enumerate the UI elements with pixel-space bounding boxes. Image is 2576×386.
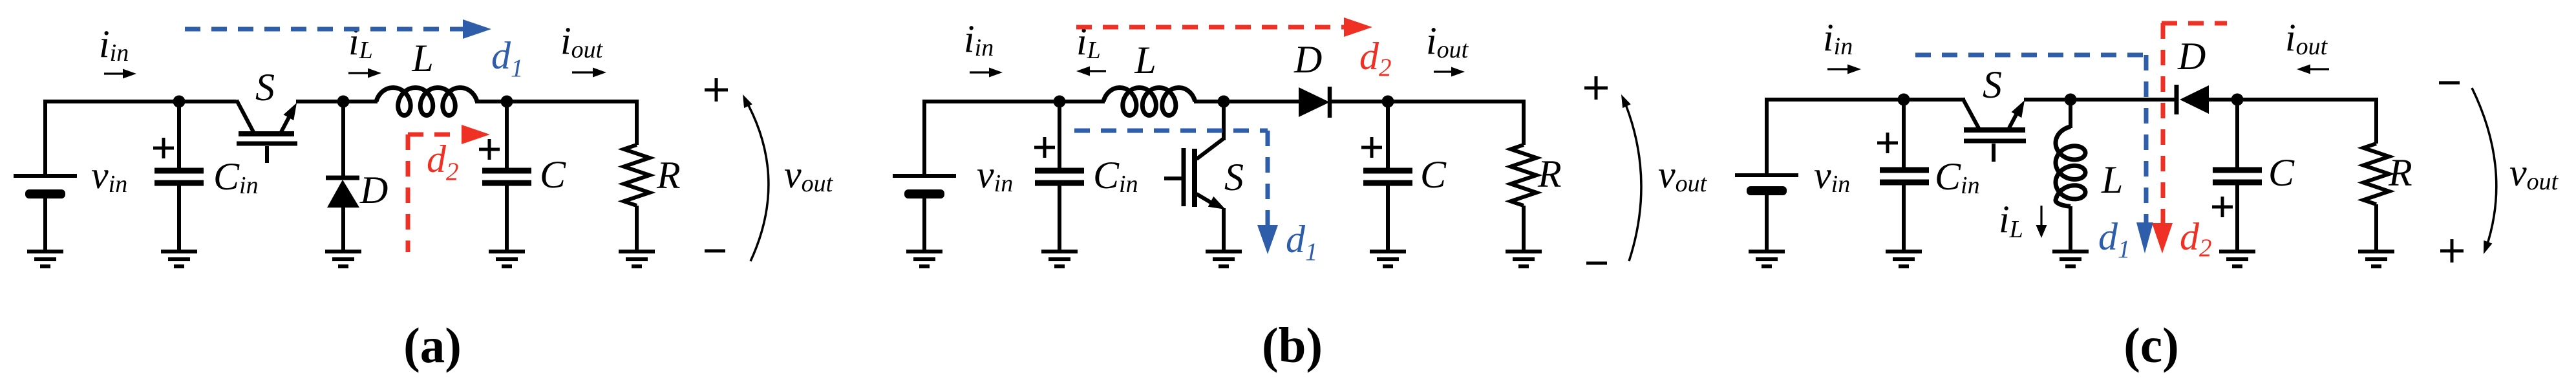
arrow i_L (b) points left: [1076, 67, 1106, 76]
node switch (b): [1218, 96, 1230, 108]
wire battery to ground (a): [43, 197, 47, 252]
node output capacitor (c): [2231, 94, 2244, 106]
wire inductor to diode (b): [1194, 100, 1301, 103]
inductor L (a): [376, 88, 477, 116]
diode D (b): [1299, 87, 1330, 118]
svg-text:iL: iL: [1999, 198, 2023, 243]
ground battery (a): [27, 252, 63, 266]
battery Vin (b): [893, 176, 956, 198]
svg-text:S: S: [1983, 63, 2002, 106]
svg-text:d2: d2: [1359, 35, 1392, 81]
wire resistor to ground (a): [635, 206, 639, 252]
svg-text:vout: vout: [1658, 153, 1708, 197]
ground battery (c): [1749, 252, 1785, 266]
svg-text:d1: d1: [2098, 215, 2131, 263]
minus sign vout (b): [1586, 262, 1607, 265]
wire node3 to cap C (b): [1386, 102, 1390, 171]
ground C (a): [489, 252, 525, 266]
ground resistor (c): [2358, 252, 2394, 266]
wire battery to ground (c): [1765, 194, 1769, 252]
resistor R (b): [1511, 145, 1537, 206]
svg-text:L: L: [2101, 158, 2123, 201]
svg-text:D: D: [2177, 35, 2206, 78]
wire node to Cin (b): [1058, 102, 1061, 171]
ground diode (a): [325, 252, 361, 266]
wire node3 to cap C (a): [505, 102, 509, 171]
dashed blue flux path d1 vertical (c): [2144, 55, 2149, 226]
capacitor C (a): [482, 171, 531, 183]
plus sign C (a): [479, 139, 500, 160]
plus sign C (b): [1361, 137, 1382, 158]
svg-text:D: D: [1293, 38, 1322, 81]
svg-text:D: D: [359, 169, 388, 211]
wire resistor to ground (b): [1522, 206, 1526, 252]
svg-text:vout: vout: [2509, 151, 2559, 195]
svg-text:Cin: Cin: [1935, 155, 1980, 199]
ground C (b): [1370, 252, 1406, 266]
svg-text:C: C: [540, 153, 566, 196]
svg-text:d2: d2: [2180, 215, 2212, 262]
svg-text:R: R: [2388, 151, 2412, 194]
svg-text:L: L: [1134, 39, 1156, 81]
red arrowhead d2 (c): [2152, 223, 2173, 253]
wire corner to resistor (b): [1522, 100, 1526, 145]
svg-text:R: R: [656, 154, 681, 197]
svg-text:iout: iout: [2285, 16, 2328, 60]
wire node2 to inductor (a): [343, 100, 378, 103]
minus sign vout (c): [2439, 81, 2460, 85]
wire corner to resistor (c): [2374, 98, 2378, 144]
svg-text:vin: vin: [977, 153, 1013, 197]
wire node to inductor (c): [2069, 100, 2072, 128]
arrow i_in (a): [104, 69, 136, 79]
svg-text:iout: iout: [1426, 19, 1469, 63]
svg-text:(b): (b): [1262, 317, 1323, 373]
svg-text:vin: vin: [91, 154, 127, 198]
ground resistor (a): [619, 252, 655, 266]
switch S IGBT (a): [237, 100, 297, 163]
svg-text:Cin: Cin: [213, 155, 259, 199]
vout arc arrow (a): [745, 98, 769, 261]
svg-text:L: L: [411, 37, 433, 80]
vout arc arrow (c): [2472, 88, 2496, 250]
wire Cin to ground (c): [1902, 182, 1906, 252]
ground C (c): [2219, 252, 2255, 266]
svg-text:vin: vin: [1814, 154, 1850, 198]
wire switch to node2 (a): [296, 100, 343, 103]
capacitor Cin (a): [154, 171, 204, 183]
wire node to Cin (c): [1902, 100, 1906, 170]
blue arrowhead d1 (c): [2136, 222, 2153, 253]
plus sign C (c) below plates: [2212, 197, 2233, 217]
svg-text:d1: d1: [491, 34, 524, 82]
wire node to Cin (a): [177, 102, 181, 171]
svg-text:iout: iout: [560, 19, 604, 63]
arrow i_L down (c): [2040, 206, 2042, 226]
resistor R (c): [2363, 144, 2389, 204]
arrow i_out (c) points left: [2297, 65, 2329, 74]
wire Cin to ground (b): [1058, 183, 1061, 252]
wire left drop to battery (c): [1765, 98, 1769, 174]
wire left drop to battery (a): [43, 100, 47, 174]
dashed red flux path d2 vertical (a): [406, 134, 410, 252]
inductor L (c) vertical: [2056, 127, 2085, 206]
circuit (a) buck converter: [14, 19, 834, 373]
node inductor (c): [2065, 94, 2077, 106]
plus sign vout (a): [705, 78, 728, 102]
node input capacitor (b): [1054, 96, 1066, 108]
svg-text:(c): (c): [2124, 317, 2178, 373]
switch S IGBT (c): [1963, 98, 2026, 162]
plus sign vout (c): [2440, 239, 2464, 263]
svg-text:iin: iin: [964, 17, 994, 61]
circuit (c) buck-boost converter: [1735, 16, 2559, 373]
dashed red flux path d2 horizontal (a): [408, 133, 460, 137]
wire C to ground (a): [505, 183, 509, 252]
plus sign vout (b): [1584, 76, 1608, 100]
wire corner to resistor (a): [635, 100, 639, 145]
plus sign Cin (a): [153, 138, 174, 158]
node output capacitor (a): [501, 96, 513, 108]
minus sign vout (a): [705, 250, 725, 253]
dashed red flux path d2 horizontal (c): [2162, 21, 2227, 26]
resistor R (a): [624, 145, 650, 206]
arrow i_out (a): [572, 68, 606, 78]
wire diode to resistor corner (b): [1331, 100, 1524, 103]
capacitor C (c): [2213, 170, 2262, 182]
ground Cin (a): [161, 252, 197, 266]
wire C to ground (b): [1386, 183, 1390, 252]
svg-text:S: S: [255, 66, 275, 109]
dashed red flux path d2 vertical (c): [2161, 23, 2166, 228]
svg-text:vout: vout: [784, 153, 834, 197]
dashed red flux path d2 (b): [1076, 25, 1346, 30]
wire input top (c): [1767, 98, 1965, 102]
node input capacitor (c): [1898, 94, 1910, 106]
wire inductor to ground (c): [2069, 206, 2072, 252]
svg-text:R: R: [1537, 153, 1562, 195]
capacitor Cin (b): [1035, 171, 1084, 183]
svg-text:C: C: [1420, 153, 1447, 196]
capacitor C (b): [1363, 171, 1412, 183]
diode D (a): [326, 178, 359, 208]
vout arc arrow (b): [1623, 98, 1641, 261]
wire input top (a): [45, 100, 237, 103]
battery Vin (c): [1735, 175, 1798, 195]
wire battery to ground (b): [922, 197, 926, 252]
dashed blue flux path d1 (a): [185, 27, 463, 32]
node output capacitor (b): [1382, 96, 1394, 108]
svg-text:C: C: [2268, 151, 2295, 194]
node diode-inductor (a): [337, 96, 350, 108]
wire node to cap C (c): [2235, 100, 2239, 170]
arrow i_in (b): [970, 68, 1003, 78]
ground Cin (c): [1886, 252, 1922, 266]
ground switch (b): [1206, 252, 1242, 266]
wire node2 down to diode (a): [341, 102, 345, 177]
svg-text:Cin: Cin: [1093, 154, 1138, 198]
wire resistor to ground (c): [2374, 204, 2378, 252]
wire input top (b): [924, 100, 1105, 103]
wire left drop to battery (b): [922, 100, 926, 174]
inductor L (b): [1103, 88, 1195, 116]
battery Vin (a): [14, 176, 77, 198]
svg-text:d1: d1: [1286, 218, 1318, 266]
diode D (c): [2177, 85, 2209, 114]
ground inductor (c): [2052, 252, 2089, 266]
red arrowhead d2 (b): [1344, 17, 1372, 37]
wire switch to diode (c): [2024, 98, 2175, 102]
node input capacitor (a): [173, 96, 186, 108]
arrow i_in (c): [1827, 65, 1861, 74]
arrow i_out (b): [1434, 67, 1465, 77]
ground Cin (b): [1041, 252, 1078, 266]
wire Cin to ground (a): [177, 183, 181, 252]
capacitor Cin (c): [1880, 170, 1929, 182]
red arrowhead d2 (a): [462, 125, 490, 144]
ground resistor (b): [1506, 252, 1542, 266]
svg-text:iin: iin: [1823, 16, 1853, 60]
svg-text:iin: iin: [99, 23, 129, 67]
switch S IGBT vertical (b): [1164, 102, 1226, 252]
svg-text:d2: d2: [427, 138, 459, 186]
plus sign Cin (b): [1034, 137, 1055, 158]
ground battery (b): [906, 252, 942, 266]
blue arrowhead d1 (a): [463, 19, 491, 39]
circuit (b) boost converter: [893, 17, 1708, 373]
svg-text:iL: iL: [348, 20, 373, 64]
arrow i_L (a): [348, 69, 381, 78]
plus sign Cin (c): [1877, 133, 1898, 153]
dashed blue flux path d1 horizontal (b): [1074, 129, 1268, 133]
wire C to ground (c): [2235, 182, 2239, 252]
dashed blue flux path d1 horizontal (c): [1915, 53, 2146, 58]
dashed blue flux path d1 vertical (b): [1266, 131, 1270, 226]
wire inductor to resistor corner (a): [475, 100, 637, 103]
svg-text:(a): (a): [403, 317, 462, 373]
wire diode to ground (a): [341, 207, 345, 252]
blue arrowhead d1 (b): [1257, 225, 1278, 254]
svg-text:S: S: [1224, 156, 1244, 198]
wire diode to resistor corner (c): [2206, 98, 2376, 102]
